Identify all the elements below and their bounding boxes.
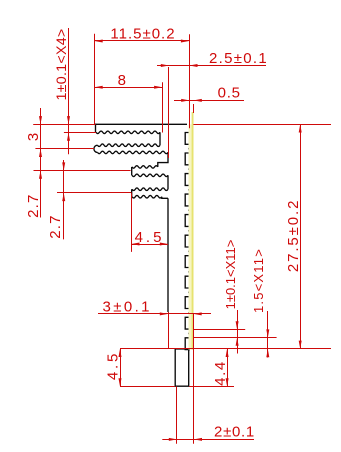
ext line: fin 1 right end <box>162 82 164 132</box>
ext line: top surface, right <box>193 124 331 126</box>
fin 3 left end cap <box>131 167 133 175</box>
fin 4 left end cap <box>131 189 133 197</box>
svg-text:2±0.1: 2±0.1 <box>214 423 255 440</box>
fin 1 left end cap <box>95 124 97 133</box>
ext line: tooth 10 bottom <box>194 329 246 331</box>
ext line: profile left corner up <box>94 34 96 125</box>
right wall of fin stack <box>167 198 169 312</box>
ext line: fin 4 left end down <box>131 193 133 252</box>
slot bottom dot between tooth 1 and 2 <box>188 148 190 150</box>
ext line: top surface, left <box>33 124 95 126</box>
spine tooth 9 <box>185 297 190 309</box>
spine tooth 4 <box>185 194 190 206</box>
svg-text:4.4: 4.4 <box>212 360 229 386</box>
ext line: slot bottom face up <box>189 34 191 128</box>
ext line: fin 1 bottom <box>64 132 96 134</box>
bottom foot block <box>175 349 189 386</box>
fin 2 serrated top edge <box>98 144 161 147</box>
slot bottom dot between tooth 6 and 7 <box>188 251 190 253</box>
step joining fin 2 to fin 3 <box>158 152 168 167</box>
svg-text:0.5: 0.5 <box>218 85 241 102</box>
spine tooth 7 <box>185 256 190 268</box>
svg-text:2.7: 2.7 <box>47 214 64 238</box>
red continuation of wall to foot <box>168 312 170 349</box>
fin 3 serrated bottom edge <box>132 174 168 177</box>
fin 4 serrated top edge <box>132 188 168 191</box>
ext line: spine bottom <box>120 348 331 350</box>
ext line: foot left down <box>176 386 178 443</box>
ext line: foot bottom left <box>120 386 175 388</box>
fin 1 serrated bottom edge <box>96 131 160 134</box>
spine tooth 6 <box>185 235 190 247</box>
spine tooth 3 <box>185 174 190 186</box>
slot bottom dot between tooth 7 and 8 <box>188 271 190 273</box>
spine tooth 10 <box>185 317 190 329</box>
spine tooth 2 <box>185 153 190 165</box>
svg-text:2.5±0.1: 2.5±0.1 <box>209 50 268 67</box>
ext line: fin 2 right end <box>168 67 170 158</box>
ext line: foot bottom right <box>189 386 234 388</box>
spine tooth 1 <box>185 133 190 145</box>
wall joining fin 3 to fin 4 <box>167 175 169 189</box>
svg-text:27.5±0.2: 27.5±0.2 <box>285 199 302 272</box>
ext line: fin 4 centerline <box>57 192 131 194</box>
heatsink top plate (fin 1) top edge <box>96 123 188 125</box>
svg-text:2.7: 2.7 <box>25 193 42 217</box>
slot bottom dot between tooth 4 and 5 <box>188 210 190 212</box>
fin 4 serrated bottom edge <box>132 195 162 198</box>
fin 2 serrated bottom edge <box>98 151 169 154</box>
fin 4 bottom right step <box>162 197 168 199</box>
svg-text:1.5<X11>: 1.5<X11> <box>251 248 266 313</box>
spine tooth 11 <box>185 338 190 350</box>
slot bottom dot between tooth 10 and 11 <box>188 333 190 335</box>
svg-text:3: 3 <box>25 132 42 141</box>
ext line: tooth 11 top <box>194 337 277 339</box>
ext line: spine right face down <box>193 314 195 444</box>
slot bottom dot between tooth 5 and 6 <box>188 230 190 232</box>
ext line: fin 2 centerline <box>35 148 94 150</box>
spine right face (pale yellow wash) <box>189 124 194 349</box>
slot bottom dot between tooth 9 and 10 <box>188 312 190 314</box>
ext line: spine right face up <box>193 104 195 113</box>
slot bottom dot between tooth 3 and 4 <box>188 189 190 191</box>
svg-text:8: 8 <box>118 72 127 89</box>
svg-text:1±0.1<X11>: 1±0.1<X11> <box>223 240 238 310</box>
fin 2 rounded left cap <box>94 145 98 152</box>
spine right face (yellow line) <box>192 112 194 350</box>
spine tooth 5 <box>185 215 190 227</box>
slot bottom dot between tooth 2 and 3 <box>188 168 190 170</box>
fin 3 serrated top edge <box>132 166 158 169</box>
slot bottom dot between tooth 8 and 9 <box>188 292 190 294</box>
ext line: fin 3 centerline <box>34 170 131 172</box>
spine tooth 8 <box>185 276 190 288</box>
wall joining fin 1 to fin 2 <box>159 132 161 145</box>
svg-text:1±0.1<X4>: 1±0.1<X4> <box>54 28 70 100</box>
